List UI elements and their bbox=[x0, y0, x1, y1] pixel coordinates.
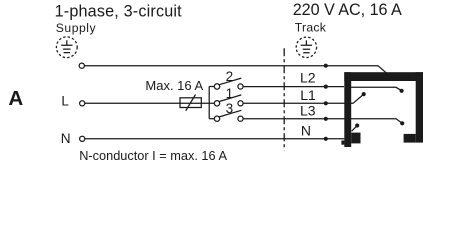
junction dot L3 wire bbox=[324, 117, 328, 121]
switch 3 blade bbox=[219, 110, 241, 117]
ground symbol: supply PE bbox=[56, 37, 77, 58]
switch 2 blade bbox=[219, 78, 241, 85]
svg-text:1-phase, 3-circuit: 1-phase, 3-circuit bbox=[55, 2, 183, 20]
track profile body bbox=[341, 72, 423, 147]
track contact dot L1 bbox=[362, 92, 366, 96]
wire L1 switch to track contact bbox=[243, 94, 363, 103]
svg-text:L2: L2 bbox=[300, 70, 316, 86]
boundary dash-dot line bbox=[283, 48, 285, 150]
wire L from terminal through fuse to switch bus bbox=[85, 102, 214, 104]
wire L2 inside track to contact bbox=[345, 87, 402, 90]
fuse F1 Max. 16 A bbox=[180, 95, 201, 111]
stub to switch 2 bbox=[209, 86, 214, 88]
svg-text:Track: Track bbox=[295, 21, 327, 35]
switch 3 terminals bbox=[214, 116, 243, 121]
junction dot N wire bbox=[324, 137, 328, 141]
svg-text:L: L bbox=[61, 94, 68, 109]
junction dot L2 wire bbox=[324, 85, 328, 89]
terminal: L bbox=[80, 101, 85, 106]
switch 1 terminals bbox=[214, 101, 243, 106]
junction dot L1 wire bbox=[324, 101, 328, 105]
terminal: N bbox=[80, 136, 85, 141]
stub to switch 3 bbox=[209, 118, 214, 120]
svg-text:Supply: Supply bbox=[56, 21, 97, 35]
svg-text:N-conductor I = max. 16 A: N-conductor I = max. 16 A bbox=[79, 148, 227, 163]
svg-text:N: N bbox=[61, 131, 71, 146]
switch 1 blade bbox=[219, 95, 241, 102]
svg-text:220 V AC, 16 A: 220 V AC, 16 A bbox=[293, 1, 402, 19]
track contact dot L3 bbox=[400, 121, 404, 125]
wire N to track foot bbox=[85, 138, 344, 140]
wire PE supply to track body bbox=[84, 66, 387, 74]
track contact dot L2 bbox=[400, 89, 404, 93]
switch 2 terminals bbox=[214, 84, 243, 89]
svg-text:L1: L1 bbox=[300, 87, 316, 103]
ground symbol: track PE bbox=[296, 37, 316, 57]
svg-text:N: N bbox=[301, 122, 311, 138]
wire N contact diagonal inside track bbox=[352, 126, 357, 131]
switch bus vertical bbox=[208, 87, 210, 119]
wire L3 switch to track contact bbox=[243, 119, 402, 123]
svg-text:Max. 16 A: Max. 16 A bbox=[145, 78, 203, 93]
svg-text:L3: L3 bbox=[300, 102, 316, 118]
wire L2 switch to track bbox=[243, 86, 344, 88]
svg-text:A: A bbox=[8, 87, 23, 110]
track contact dot N bbox=[355, 123, 359, 127]
junction dot PE wire bbox=[324, 64, 328, 68]
terminal: supply PE bbox=[79, 63, 84, 68]
